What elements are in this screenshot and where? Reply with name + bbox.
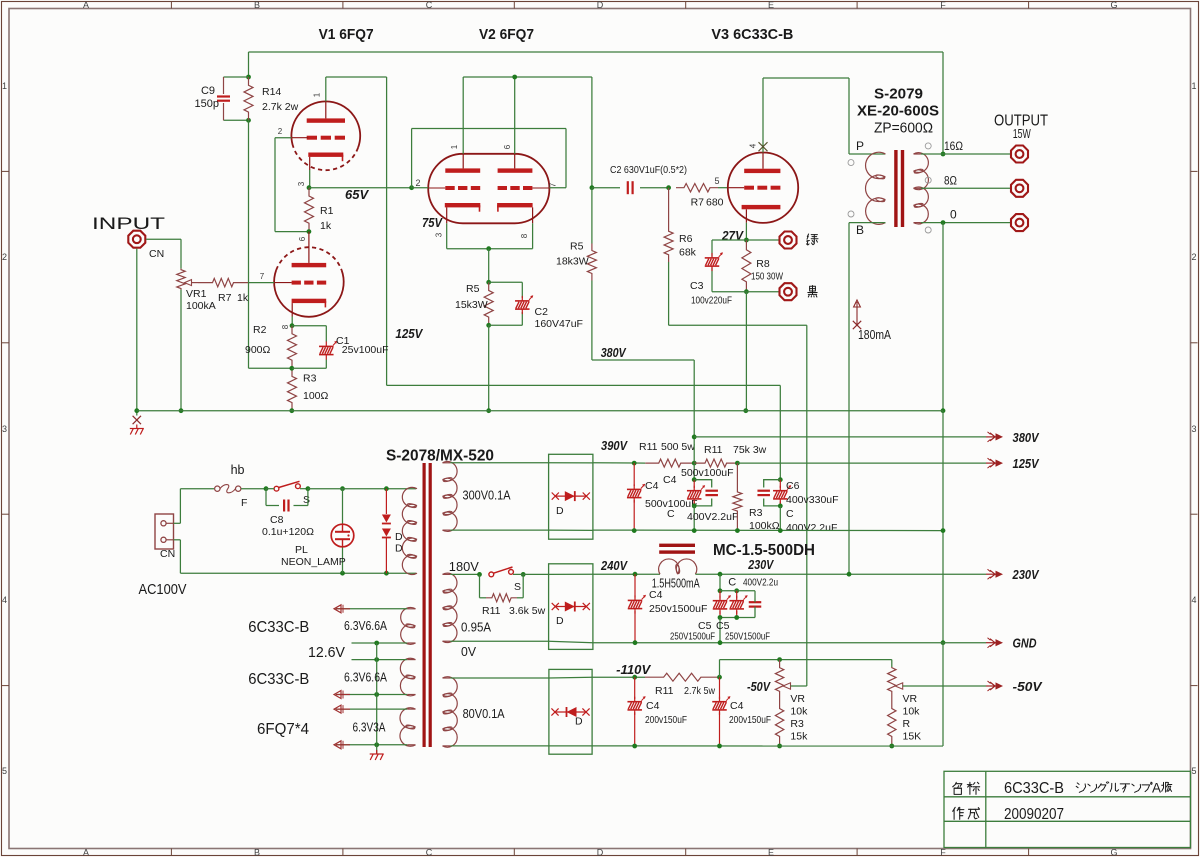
wire box1 passthrough top: [549, 462, 593, 464]
wire V2 cathodes join: [447, 223, 533, 248]
svg-text:C: C: [667, 508, 675, 520]
svg-text:C4: C4: [649, 589, 663, 601]
svg-text:100kA: 100kA: [186, 300, 216, 312]
pin 8 V2: [520, 233, 529, 238]
resistor R6 68k: [664, 188, 673, 326]
node C4a top: [632, 461, 637, 466]
label AC100V: [139, 581, 187, 598]
ground symbol heater CT: [370, 750, 384, 760]
node cap2 top: [692, 477, 697, 482]
label hb: [231, 463, 245, 477]
svg-text:250V1500uF: 250V1500uF: [725, 631, 770, 643]
svg-text:C: C: [728, 577, 736, 589]
resistor R11 75k 3w: [694, 459, 737, 467]
svg-text:C: C: [426, 848, 433, 857]
svg-text:C4: C4: [730, 700, 744, 712]
node R3 ground: [289, 408, 294, 413]
svg-text:C6: C6: [786, 480, 800, 492]
svg-text:XE-20-600S: XE-20-600S: [857, 103, 939, 120]
wire 380V distribution: [694, 436, 986, 438]
node C5 bot b: [734, 615, 739, 620]
wire switch left stub: [266, 488, 274, 490]
svg-text:C4: C4: [663, 474, 677, 486]
wire 27V to green terminal: [746, 239, 778, 241]
svg-text:240V: 240V: [600, 558, 628, 573]
label 100v220uF: [691, 295, 732, 307]
label 80V0.1A: [463, 706, 505, 721]
wire C5 to gnd line: [719, 618, 721, 643]
label VR1: [186, 288, 207, 300]
pin 1 V1a: [313, 92, 322, 97]
arrow heater2: [334, 691, 350, 699]
arrow heater3 bottom: [334, 741, 350, 749]
node sw2 right: [521, 572, 526, 577]
node 0 tap junction: [941, 220, 946, 225]
wire box1 passthrough bottom: [549, 529, 593, 531]
label NEON_LAMP: [281, 556, 346, 568]
node B joins 230V: [847, 572, 852, 577]
node bus R3: [735, 528, 740, 533]
wire V3 cathode to 27V node: [745, 223, 747, 240]
wire 80V bottom: [450, 745, 549, 747]
wire 65V node to V2 grid: [309, 187, 412, 189]
wire 240V line: [593, 573, 660, 575]
label B: [856, 223, 864, 237]
node VR2 bias bottom: [889, 744, 894, 749]
svg-text:AC100V: AC100V: [139, 581, 187, 598]
label C film b: [667, 508, 675, 520]
node V1b cathode / R2 top: [290, 323, 295, 328]
resistor R3 15k: [775, 692, 783, 746]
wire sw2 right stub: [513, 573, 549, 575]
pin 7 V1b: [260, 272, 265, 281]
label -110V italic: [616, 662, 651, 677]
wire box3 passthrough top: [549, 676, 592, 679]
svg-text:C: C: [786, 508, 794, 520]
node heater CT2: [374, 657, 379, 662]
terminal 16ohm: [1011, 146, 1028, 163]
wire 390V line: [593, 462, 645, 464]
arrow 230V: [986, 569, 1003, 579]
diode glyph D3: [551, 707, 589, 717]
label ZP600: [874, 121, 933, 137]
wire box3 passthrough bottom: [549, 745, 592, 747]
pin 7 V2: [549, 182, 558, 187]
label R7 680b: [706, 197, 724, 209]
svg-text:6.3V6.6A: 6.3V6.6A: [344, 618, 387, 633]
node VR1 bias top: [777, 657, 782, 662]
svg-text:R7: R7: [691, 197, 705, 209]
svg-text:-50V: -50V: [747, 679, 771, 694]
svg-text:CN: CN: [160, 548, 175, 560]
title block kanji sho: [967, 782, 979, 794]
label C6 val: [786, 494, 839, 506]
svg-text:5: 5: [1191, 766, 1196, 776]
wire R7 to V3 grid: [718, 187, 728, 189]
wire box2 passthrough bottom: [549, 641, 593, 643]
wire C2 right lead: [640, 187, 669, 189]
rectifier bridge D3 box: [549, 669, 592, 754]
title block table: [944, 771, 1191, 847]
wire C1 bottom branch: [292, 360, 326, 369]
node heater CT4: [374, 742, 379, 747]
pin mark OPT 3: [848, 160, 854, 166]
wire main ground bus: [137, 410, 943, 412]
wire VR2 wiper to -50V arrow: [903, 685, 986, 687]
PSU heater winding 6.3V3A: [400, 708, 416, 747]
wire 125V distribution: [737, 462, 986, 464]
triode V1 lower (6FQ7 section 2): [274, 232, 344, 317]
wire heater1 bottom: [352, 642, 408, 644]
label 300V0.1A: [463, 488, 511, 503]
node 65V: [307, 185, 312, 190]
title block name value: [1004, 780, 1064, 797]
svg-text:3.6k 5w: 3.6k 5w: [509, 605, 546, 617]
capacitor C2 coupling: [628, 181, 633, 194]
node C5 top b: [734, 588, 739, 593]
svg-text:6: 6: [503, 144, 512, 149]
capacitor C5a electrolytic: [713, 591, 731, 618]
node R8 bottom: [744, 289, 749, 294]
label XE-20-600S: [857, 103, 939, 120]
capacitor C2 cathode electrolytic: [515, 295, 533, 314]
svg-text:230V: 230V: [747, 557, 774, 572]
svg-text:6C33C-B: 6C33C-B: [248, 619, 309, 636]
svg-text:6C33C-B: 6C33C-B: [1004, 780, 1064, 797]
svg-text:16Ω: 16Ω: [944, 139, 963, 153]
wire V1a plate to 125V rail drop: [326, 77, 387, 385]
svg-text:10k: 10k: [903, 706, 921, 718]
label 500 5w: [661, 441, 695, 453]
label C8 value: [262, 526, 314, 538]
svg-text:15k3W: 15k3W: [455, 299, 488, 311]
tb katakana a: [1120, 784, 1129, 792]
wire PL bottom lead: [342, 547, 344, 573]
capacitor C4a electrolytic: [627, 463, 645, 530]
title block kanji saku: [953, 807, 964, 819]
wire R7 to V1b grid: [248, 282, 274, 284]
node bus C4a: [632, 528, 637, 533]
OPT core: [894, 150, 904, 227]
label R11 2.7k: [655, 685, 674, 697]
svg-text:380V: 380V: [601, 345, 627, 360]
wire 8ohm tap: [921, 187, 1010, 189]
svg-text:125V: 125V: [1013, 456, 1040, 471]
label 2.7k 5w: [684, 685, 715, 697]
tb kanji han: [1162, 782, 1172, 792]
label 15k3W: [455, 299, 488, 311]
svg-text:18k3W: 18k3W: [556, 256, 589, 268]
svg-text:D: D: [597, 848, 604, 857]
label 125V italic: [395, 326, 423, 341]
pin 3 V1a: [297, 181, 306, 186]
wire 180V lead: [450, 573, 479, 575]
svg-text:C8: C8: [270, 514, 284, 526]
terminal 8ohm: [1011, 180, 1028, 197]
svg-text:65V: 65V: [345, 187, 369, 202]
wire C8 right: [294, 489, 308, 506]
svg-text:R3: R3: [303, 373, 317, 385]
wire feedback vertical R14 to R2/R3 node: [249, 120, 292, 368]
label 68k: [679, 247, 697, 259]
terminal black: [780, 283, 797, 300]
label OUTPUT: [994, 113, 1048, 130]
wire 80V top: [450, 677, 549, 679]
wire C8 left: [266, 489, 279, 506]
label 1.5H500mA: [652, 577, 700, 591]
wire black terminal: [746, 291, 778, 293]
wire 16ohm tap: [921, 153, 1010, 155]
label 75k 3w: [733, 444, 767, 456]
svg-text:0.95A: 0.95A: [461, 620, 491, 635]
svg-text:400V2.2u: 400V2.2u: [743, 577, 778, 589]
svg-text:12.6V: 12.6V: [308, 644, 345, 661]
wire heater1 top: [336, 608, 408, 610]
svg-text:6FQ7*4: 6FQ7*4: [257, 721, 309, 738]
node R1 bottom / V1b plate: [307, 229, 312, 234]
node V2 cathode mid: [486, 246, 491, 251]
svg-text:C4: C4: [646, 700, 660, 712]
node -110V filtered: [717, 675, 722, 680]
label 8ohm: [944, 174, 957, 188]
svg-text:R11: R11: [655, 685, 674, 697]
label D lower: [395, 543, 403, 555]
label C1: [336, 335, 350, 347]
node C6 top: [778, 477, 783, 482]
svg-text:1k: 1k: [320, 220, 332, 232]
wire C9 bottom to R14 bottom: [224, 119, 249, 121]
label C film d: [728, 577, 736, 589]
svg-text:D: D: [575, 716, 583, 728]
PSU 80V winding: [443, 677, 458, 748]
node C4c top: [633, 572, 638, 577]
wire GND line: [593, 642, 986, 644]
label 230V out: [1012, 567, 1040, 582]
svg-text:V2 6FQ7: V2 6FQ7: [479, 26, 534, 43]
node bus cap2: [692, 528, 697, 533]
node R5/C2 top: [486, 280, 491, 285]
arrow 380V: [986, 432, 1003, 442]
svg-text:400V2.2uF: 400V2.2uF: [786, 522, 837, 534]
label C film c val: [786, 522, 837, 534]
svg-text:D: D: [395, 531, 403, 543]
svg-text:S: S: [303, 494, 310, 506]
wire mains bottom: [174, 540, 417, 573]
wire feedback bus 16ohm tap to R14/C9: [249, 52, 944, 154]
resistor R3 cathode: [288, 368, 297, 410]
label -50V out: [1013, 679, 1043, 694]
label R8: [756, 258, 770, 270]
node bus to main gnd: [941, 528, 946, 533]
label 380V out: [1013, 430, 1040, 445]
wire -110V line: [592, 676, 645, 678]
node gnd C4c: [633, 640, 638, 645]
wire filter ground bus: [593, 529, 943, 532]
pin 4 V3: [749, 143, 758, 148]
node R14 top: [246, 75, 251, 80]
resistor R7 input: [198, 278, 248, 286]
label 12.6V: [308, 644, 345, 661]
svg-text:R5: R5: [466, 283, 480, 295]
label R3 100k: [749, 507, 763, 519]
svg-text:C2: C2: [535, 306, 549, 318]
svg-text:15K: 15K: [903, 731, 922, 743]
label 0: [950, 208, 957, 222]
wire switch to PL: [308, 488, 416, 490]
svg-text:4: 4: [1191, 595, 1196, 605]
svg-text:5: 5: [714, 176, 719, 186]
svg-text:S: S: [514, 581, 521, 593]
title block kanji mei: [953, 782, 962, 794]
wire V2 plate node to R5 18k: [591, 188, 593, 244]
arrow heater3 top: [334, 705, 350, 713]
label 15k: [790, 731, 808, 743]
resistor R3 100k: [733, 463, 742, 530]
wire cap2 to bus: [693, 506, 695, 531]
label 900ohm: [245, 344, 271, 356]
svg-text:3: 3: [297, 181, 306, 186]
label PL: [295, 544, 308, 556]
svg-text:100v220uF: 100v220uF: [691, 295, 732, 307]
svg-text:2.7k 2w: 2.7k 2w: [262, 101, 299, 113]
wire CN shell to ground: [136, 249, 138, 416]
label VR bias1: [790, 693, 805, 705]
triode V3 (6C33C-B): [728, 153, 798, 223]
node R2/R3 junction: [289, 366, 294, 371]
node V2 plate pin6 junction: [512, 75, 517, 80]
label C5b val: [725, 631, 770, 643]
wire V1a grid to R1 bottom node: [275, 138, 309, 232]
resistor R1: [305, 188, 314, 232]
svg-text:300V0.1A: 300V0.1A: [463, 488, 511, 503]
diode glyph D2: [552, 602, 590, 612]
svg-text:200v150uF: 200v150uF: [645, 714, 687, 726]
svg-text:CN: CN: [149, 248, 164, 260]
label 100ohm: [303, 390, 329, 402]
label 180V: [449, 559, 479, 574]
title V1 6FQ7: [319, 26, 374, 43]
svg-text:250V1500uF: 250V1500uF: [670, 631, 715, 643]
label 2.7k 2w: [262, 101, 299, 113]
node 380V line: [692, 435, 697, 440]
label C4c: [649, 589, 663, 601]
label R7 680a: [691, 197, 705, 209]
diode D lower: [382, 529, 391, 574]
wire bias top rail: [720, 660, 892, 678]
marker 180mA: [853, 300, 861, 329]
capacitor C3 electrolytic: [705, 252, 723, 271]
svg-text:2: 2: [1191, 252, 1196, 262]
wire C2k top branch: [489, 282, 523, 298]
wire mains top: [174, 489, 215, 524]
node VR1 bias bottom: [777, 744, 782, 749]
node DD bottom: [384, 571, 389, 576]
svg-text:PL: PL: [295, 544, 308, 556]
svg-text:250v1500uF: 250v1500uF: [649, 603, 707, 615]
svg-text:68k: 68k: [679, 247, 697, 259]
svg-text:B: B: [856, 223, 864, 237]
wire V2 grid loop: [412, 129, 566, 188]
svg-text:R14: R14: [262, 86, 281, 98]
tb katakana gu: [1098, 782, 1109, 792]
label -50V italic: [747, 679, 771, 694]
pin mark OPT 1: [925, 177, 931, 183]
label 180mA: [858, 328, 892, 342]
label R11 75k: [704, 444, 723, 456]
PSU transformer core: [423, 463, 432, 747]
terminal 0: [1011, 214, 1028, 231]
svg-text:B: B: [254, 848, 260, 857]
svg-text:4: 4: [749, 143, 758, 148]
svg-text:S-2078/MX-520: S-2078/MX-520: [386, 448, 494, 465]
tb katakana nn: [1088, 784, 1097, 792]
wire V2 cathode to ground bus: [488, 325, 490, 410]
label 100kA: [186, 300, 216, 312]
label P: [856, 139, 864, 153]
terminal green: [780, 232, 797, 249]
svg-text:1: 1: [2, 81, 7, 91]
wire 300V bottom: [450, 529, 548, 531]
svg-text:390V: 390V: [601, 438, 628, 453]
svg-text:200v150uF: 200v150uF: [729, 714, 771, 726]
label 3.6k 5w: [509, 605, 546, 617]
wire C6 to bus: [779, 506, 781, 531]
label 6FQ7*4: [257, 721, 309, 738]
PSU 180V winding: [443, 573, 457, 642]
svg-text:5: 5: [2, 766, 7, 776]
svg-text:3: 3: [1191, 424, 1196, 434]
label kanji green: [807, 234, 819, 245]
svg-text:C3: C3: [690, 280, 704, 292]
title block A: [1152, 781, 1161, 796]
svg-text:6.3V3A: 6.3V3A: [353, 720, 386, 735]
svg-text:GND: GND: [1013, 636, 1038, 651]
svg-text:VR1: VR1: [186, 288, 207, 300]
svg-text:10k: 10k: [790, 706, 808, 718]
label 15W: [1013, 127, 1031, 141]
svg-text:75V: 75V: [422, 215, 443, 230]
label 6.3V6.6A no2: [344, 670, 387, 685]
svg-text:R1: R1: [320, 205, 334, 217]
pin 6 V1b: [298, 236, 307, 241]
svg-text:R5: R5: [570, 241, 584, 253]
wire heater3 top: [336, 708, 408, 710]
wire CN to VR1 top: [146, 239, 181, 268]
label 6.3V3A: [353, 720, 386, 735]
svg-text:R11: R11: [482, 605, 501, 617]
wire 300V top: [450, 462, 548, 464]
wire C1 top branch: [292, 326, 326, 342]
svg-text:230V: 230V: [1012, 567, 1040, 582]
svg-text:2: 2: [278, 127, 283, 136]
wire bias bottom bus: [592, 745, 943, 747]
svg-text:0: 0: [950, 208, 957, 222]
node heater CT3: [374, 692, 379, 697]
connector CN mains: [155, 514, 174, 549]
neon lamp PL: [331, 524, 354, 547]
svg-text:R3: R3: [790, 718, 804, 730]
svg-text:7: 7: [549, 182, 558, 187]
wire bus drop to R14 top: [248, 52, 250, 77]
title V3 6C33C-B: [711, 26, 793, 43]
capacitor C film c: [757, 480, 780, 506]
pin 1 V2: [450, 144, 459, 149]
label C4a: [645, 480, 659, 492]
svg-text:F: F: [940, 0, 946, 10]
svg-text:900Ω: 900Ω: [245, 344, 271, 356]
arrow GND: [986, 638, 1003, 648]
tb katakana ru: [1110, 783, 1118, 791]
